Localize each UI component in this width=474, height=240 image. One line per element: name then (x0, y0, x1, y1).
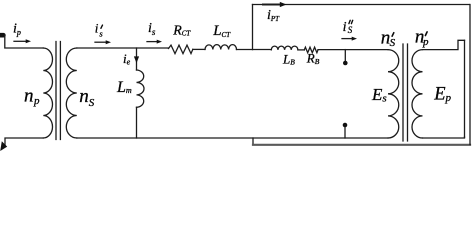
svg-text:Lm: Lm (116, 79, 132, 96)
arrow current i_PT on top rail (263, 4, 281, 6)
polarity dot bottom (343, 123, 348, 128)
svg-text:iPT: iPT (267, 8, 280, 23)
wire between L_B and R_B (298, 49, 304, 51)
wire L_CT to burden branch (237, 49, 272, 51)
inductor L_B (271, 46, 298, 50)
svg-text:iS: iS (343, 20, 353, 35)
svg-text:RB: RB (306, 51, 320, 66)
inductor L_CT (205, 45, 237, 50)
resistor R_B (304, 47, 318, 53)
prime mark of i'_s (101, 25, 103, 28)
svg-text:ie: ie (123, 51, 131, 67)
arrow current i_p (14, 40, 27, 42)
bottom-left terminal arrowhead (0, 141, 7, 151)
svg-text:Es: Es (371, 85, 387, 105)
double prime mark of i''_S (349, 20, 353, 23)
transformer T1 secondary winding n_S (66, 48, 77, 138)
transformer T2 winding n'_S (388, 50, 399, 138)
inner right vertical wire (464, 40, 466, 137)
stub to top polarity dot (344, 50, 346, 61)
bottom rail CT side (77, 137, 388, 139)
transformer T1 primary winding n_p (43, 48, 52, 138)
svg-text:np: np (415, 27, 429, 48)
top rail (i_PT path) (253, 4, 470, 6)
primary terminal blob top-left (0, 33, 6, 38)
svg-text:ip: ip (13, 21, 21, 37)
wire from top-left terminal down to main wire (5, 35, 44, 48)
wire n'_p top jog to inner right vertical (423, 40, 465, 49)
svg-text:is: is (95, 21, 104, 39)
svg-text:is: is (148, 21, 156, 37)
svg-text:nS: nS (381, 28, 396, 50)
wire between R_CT and L_CT (193, 48, 205, 50)
wire L_m bottom (136, 107, 138, 138)
arrowhead current i_e (134, 56, 139, 63)
transformer T2 core lines (403, 44, 408, 141)
svg-text:LB: LB (282, 51, 295, 66)
wire primary bottom to bottom-left terminal (5, 138, 43, 146)
wire L_m branch riser (136, 48, 138, 70)
polarity dot top (343, 61, 348, 66)
prime mark of n'_p (425, 32, 427, 36)
prime mark of n'_S (392, 33, 394, 37)
svg-text:RCT: RCT (172, 24, 191, 39)
resistor R_CT (169, 45, 193, 54)
wire R_B to transformer T2 (318, 49, 388, 51)
svg-text:nS: nS (79, 86, 95, 109)
stub from bottom polarity dot (344, 127, 346, 138)
outer bottom rail (253, 144, 470, 146)
arrow current i''_S (342, 38, 353, 40)
arrow current i_s (147, 41, 158, 43)
jog between CT rail and outer bottom rail (252, 138, 254, 145)
svg-text:np: np (24, 85, 40, 107)
wire secondary top to resistor R_CT (77, 47, 169, 49)
inductor L_m (137, 70, 145, 107)
outer right edge (469, 5, 471, 145)
svg-text:Ep: Ep (433, 84, 451, 104)
transformer T2 winding n'_p (412, 50, 423, 138)
node riser to i_PT top rail (252, 5, 254, 50)
svg-text:LCT: LCT (212, 23, 231, 39)
wire n'_p bottom to inner right vertical (423, 137, 465, 138)
transformer T1 core lines (56, 42, 60, 140)
arrow current i'_s (95, 41, 107, 43)
